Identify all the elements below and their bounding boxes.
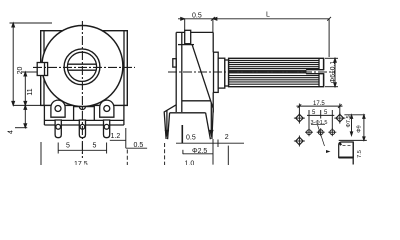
svg-text:0.5: 0.5 <box>134 142 144 149</box>
svg-text:11: 11 <box>27 88 34 95</box>
svg-text:5: 5 <box>93 143 97 150</box>
svg-text:L: L <box>266 12 270 19</box>
svg-text:Φ7.5: Φ7.5 <box>346 115 352 127</box>
svg-text:3-Φ1.5: 3-Φ1.5 <box>311 120 328 126</box>
svg-text:5: 5 <box>66 143 70 150</box>
svg-text:0.5: 0.5 <box>186 135 196 142</box>
svg-text:7.5: 7.5 <box>357 150 363 158</box>
svg-text:0.5: 0.5 <box>192 13 202 20</box>
svg-text:4: 4 <box>8 130 15 134</box>
svg-text:20: 20 <box>17 67 24 75</box>
svg-text:17.5: 17.5 <box>74 161 88 165</box>
svg-text:1.0: 1.0 <box>185 161 195 166</box>
svg-text:17.5: 17.5 <box>313 101 325 107</box>
svg-text:1.2: 1.2 <box>111 133 121 140</box>
svg-text:2: 2 <box>225 134 229 141</box>
svg-text:Φ6±0.1: Φ6±0.1 <box>330 61 337 84</box>
svg-text:Φ2.5: Φ2.5 <box>192 148 207 155</box>
svg-text:Φ9: Φ9 <box>357 125 363 132</box>
